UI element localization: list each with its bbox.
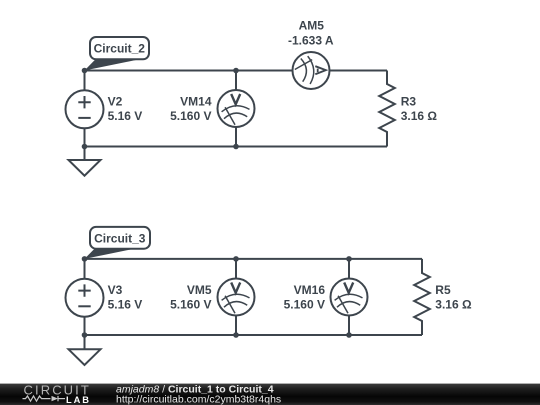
svg-text:-1.633 A: -1.633 A (288, 33, 334, 47)
wire: top rail of Circuit_3 (node to R5) (85, 258, 423, 260)
wire: bottom rail of Circuit_3 (ground rail) (85, 334, 423, 336)
svg-text:AM5: AM5 (299, 19, 325, 33)
svg-text:5.160 V: 5.160 V (170, 109, 211, 123)
svg-text:5.160 V: 5.160 V (170, 298, 211, 312)
wire: top rail of Circuit_2 (node to R3) (85, 70, 388, 72)
label VM16 value (284, 283, 326, 312)
voltage source V3 (66, 259, 104, 335)
label AM5 value (288, 19, 334, 48)
label VM5 value (170, 283, 212, 312)
junction: VM16 top (346, 256, 352, 262)
ammeter AM5 (293, 52, 330, 89)
CircuitLab logo schematic squiggle (resistor + diode) (23, 396, 66, 401)
junction: VM5 bottom (233, 332, 239, 338)
svg-text:VM5: VM5 (187, 283, 212, 297)
svg-text:5.16 V: 5.16 V (108, 109, 143, 123)
junction: VM16 bottom (346, 332, 352, 338)
annotation callout Circuit_3 (85, 227, 151, 259)
svg-text:http://circuitlab.com/c2ymb3t8: http://circuitlab.com/c2ymb3t8r4qhs (116, 394, 281, 405)
junction: VM14 top (233, 68, 239, 74)
junction: Circuit_3 top-left node (82, 256, 88, 262)
label V3 value (108, 283, 143, 312)
svg-text:R5: R5 (435, 283, 451, 297)
voltmeter VM16 (331, 259, 368, 335)
junction: Circuit_2 bottom-left node (82, 144, 88, 150)
svg-text:Circuit_3: Circuit_3 (94, 231, 146, 245)
svg-text:V3: V3 (108, 283, 123, 297)
svg-text:V2: V2 (108, 94, 123, 108)
junction: VM14 bottom (233, 144, 239, 150)
label V2 value (108, 94, 143, 123)
annotation callout Circuit_2 (85, 37, 150, 71)
junction: VM5 top (233, 256, 239, 262)
svg-text:3.16 Ω: 3.16 Ω (401, 109, 438, 123)
svg-text:5.16 V: 5.16 V (108, 298, 143, 312)
svg-text:5.160 V: 5.160 V (284, 298, 325, 312)
ground (Circuit_3) (69, 335, 101, 365)
label R3 value (401, 94, 438, 123)
svg-text:3.16 Ω: 3.16 Ω (435, 298, 472, 312)
label VM14 value (170, 94, 212, 123)
voltmeter VM5 (218, 259, 255, 335)
wire: bottom rail of Circuit_2 (ground rail) (85, 146, 388, 148)
svg-text:R3: R3 (401, 94, 417, 108)
svg-text:VM16: VM16 (294, 283, 326, 297)
junction: Circuit_3 bottom-left node (82, 332, 88, 338)
footer bar (0, 384, 540, 405)
resistor R5 (414, 259, 430, 335)
voltage source V2 (66, 71, 104, 147)
label R5 value (435, 283, 472, 312)
resistor R3 (379, 71, 395, 147)
junction: Circuit_2 top-left node (82, 68, 88, 74)
ground (Circuit_2) (69, 147, 101, 176)
voltmeter VM14 (218, 71, 255, 147)
svg-text:LAB: LAB (66, 395, 91, 405)
svg-text:VM14: VM14 (180, 94, 212, 108)
svg-text:Circuit_2: Circuit_2 (94, 42, 146, 56)
